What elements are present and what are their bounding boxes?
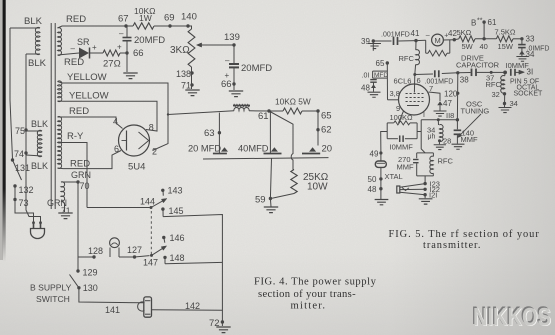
svg-text:6: 6	[417, 76, 421, 85]
svg-text:40MFD: 40MFD	[238, 144, 269, 154]
svg-text:+: +	[92, 43, 97, 52]
svg-text:I2I: I2I	[429, 191, 437, 200]
svg-text:GRN: GRN	[71, 170, 91, 180]
svg-text:20MFD: 20MFD	[241, 63, 272, 74]
svg-text:6CL6: 6CL6	[394, 77, 412, 86]
svg-text:–: –	[225, 56, 230, 65]
svg-text:5W: 5W	[462, 42, 474, 51]
svg-text:transmitter.: transmitter.	[423, 240, 481, 251]
svg-text:TUNING: TUNING	[461, 106, 490, 115]
svg-text:**: **	[477, 18, 483, 25]
svg-text:I0MMF: I0MMF	[506, 61, 530, 70]
svg-text:32: 32	[492, 90, 500, 99]
svg-text:69: 69	[164, 13, 175, 24]
svg-text:33: 33	[526, 35, 535, 44]
svg-text:63: 63	[204, 128, 215, 139]
svg-text:148: 148	[170, 253, 185, 263]
svg-text:RFC: RFC	[438, 157, 454, 166]
svg-text:39: 39	[361, 37, 370, 46]
svg-text:SOCKET: SOCKET	[514, 91, 544, 98]
svg-text:65: 65	[376, 59, 385, 68]
svg-text:SWITCH: SWITCH	[36, 294, 70, 304]
svg-text:34: 34	[510, 99, 518, 108]
svg-text:142: 142	[185, 301, 200, 311]
svg-text:–: –	[71, 44, 76, 53]
svg-text:YELLOW: YELLOW	[67, 72, 107, 83]
svg-text:FIG. 5. The rf section of your: FIG. 5. The rf section of your	[389, 229, 540, 240]
svg-text:61: 61	[488, 18, 497, 27]
svg-text:71: 71	[181, 81, 191, 91]
svg-text:II8: II8	[446, 111, 454, 120]
svg-text:3KΩ: 3KΩ	[170, 45, 190, 56]
svg-text:48: 48	[368, 185, 377, 194]
svg-text:73: 73	[19, 198, 29, 208]
svg-text:7.5KΩ: 7.5KΩ	[495, 28, 516, 37]
svg-text:15W: 15W	[498, 42, 514, 51]
svg-text:section of your trans-: section of your trans-	[258, 289, 356, 300]
svg-text:BLK: BLK	[31, 119, 48, 129]
svg-text:10KΩ 5W: 10KΩ 5W	[275, 97, 311, 107]
svg-text:147: 147	[143, 258, 158, 268]
svg-text:70: 70	[80, 181, 90, 191]
svg-text:+: +	[117, 43, 122, 52]
svg-text:MMF: MMF	[397, 163, 414, 172]
svg-text:.001MFD: .001MFD	[381, 32, 410, 39]
svg-text:I: I	[423, 112, 425, 119]
svg-text:144: 144	[140, 197, 155, 207]
svg-text:28: 28	[443, 137, 451, 146]
svg-text:RED: RED	[64, 57, 84, 68]
svg-text:120: 120	[444, 90, 458, 99]
svg-text:129: 129	[83, 268, 98, 278]
svg-text:27Ω: 27Ω	[103, 59, 121, 70]
svg-text:MMF: MMF	[461, 135, 478, 144]
svg-text:M: M	[435, 36, 441, 45]
svg-text:67: 67	[118, 14, 129, 25]
svg-text:BLK: BLK	[24, 16, 43, 27]
svg-text:MFD: MFD	[374, 72, 388, 79]
svg-text:RED: RED	[66, 14, 86, 25]
svg-text:138: 138	[176, 69, 191, 79]
svg-text:66: 66	[221, 79, 232, 90]
svg-text:FIG. 4. The power supply: FIG. 4. The power supply	[254, 276, 377, 287]
svg-text:61: 61	[258, 111, 269, 122]
svg-text:50: 50	[368, 175, 377, 184]
svg-text:3,8: 3,8	[390, 89, 400, 98]
svg-text:48: 48	[361, 84, 370, 93]
svg-text:41: 41	[411, 29, 420, 38]
svg-text:4: 4	[113, 117, 118, 127]
svg-text:μh: μh	[428, 134, 436, 141]
svg-text:66: 66	[133, 48, 144, 59]
svg-text:RED: RED	[69, 106, 89, 117]
svg-text:128: 128	[88, 246, 103, 256]
svg-text:59: 59	[255, 195, 266, 206]
svg-text:20: 20	[322, 144, 333, 155]
svg-text:146: 146	[170, 233, 185, 243]
svg-text:38: 38	[460, 76, 469, 85]
svg-text:.0I: .0I	[362, 73, 370, 80]
svg-text:75: 75	[15, 126, 25, 136]
svg-text:5KΩ: 5KΩ	[457, 28, 472, 37]
svg-text:131: 131	[15, 163, 30, 173]
svg-text:62: 62	[321, 125, 332, 136]
svg-text:74: 74	[14, 149, 24, 159]
svg-text:I0MMF: I0MMF	[390, 143, 414, 152]
svg-text:R-Y: R-Y	[67, 131, 84, 142]
svg-text:5U4: 5U4	[128, 162, 145, 173]
svg-text:mitter.: mitter.	[291, 300, 327, 311]
svg-text:10W: 10W	[307, 182, 328, 193]
svg-text:141: 141	[105, 305, 120, 315]
svg-text:139: 139	[224, 32, 240, 43]
svg-text:130: 130	[83, 283, 98, 293]
svg-text:RFC: RFC	[399, 54, 415, 63]
svg-text:145: 145	[169, 206, 184, 216]
svg-text:143: 143	[168, 186, 183, 196]
svg-text:BLK: BLK	[28, 58, 47, 69]
svg-text:NIKKOS: NIKKOS	[473, 304, 551, 332]
svg-text:–: –	[119, 29, 124, 38]
svg-text:B: B	[471, 19, 476, 28]
svg-text:2: 2	[152, 147, 157, 157]
svg-text:SR: SR	[77, 37, 90, 47]
svg-text:40: 40	[480, 42, 488, 51]
svg-text:20 MFD: 20 MFD	[188, 144, 221, 154]
svg-text:127: 127	[127, 245, 142, 255]
svg-text:49: 49	[370, 150, 379, 159]
svg-text:XTAL: XTAL	[385, 172, 403, 181]
svg-text:47: 47	[443, 99, 452, 108]
svg-text:1W: 1W	[139, 13, 152, 23]
svg-text:8: 8	[149, 123, 154, 133]
svg-text:34: 34	[526, 50, 535, 59]
svg-text:CAPACITOR: CAPACITOR	[456, 61, 500, 70]
svg-text:RFC: RFC	[486, 80, 502, 89]
svg-text:9: 9	[396, 104, 400, 113]
svg-text:BLK: BLK	[31, 161, 48, 171]
svg-text:B SUPPLY: B SUPPLY	[30, 283, 72, 293]
svg-text:6: 6	[114, 144, 119, 154]
svg-text:140: 140	[181, 12, 197, 23]
svg-text:YELLOW: YELLOW	[69, 91, 109, 102]
svg-text:71: 71	[61, 206, 71, 216]
svg-text:20MFD: 20MFD	[134, 35, 165, 46]
svg-text:–: –	[426, 32, 430, 39]
svg-text:65: 65	[321, 111, 332, 122]
